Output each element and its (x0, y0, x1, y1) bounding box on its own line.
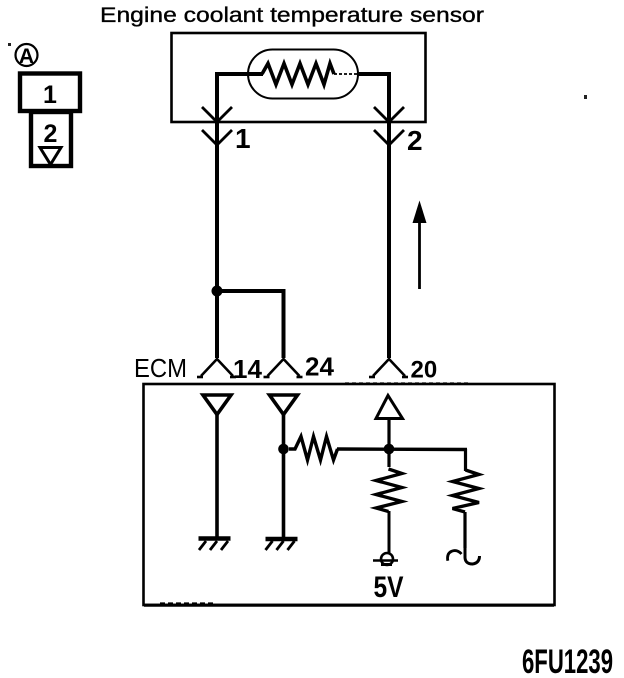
svg-text:ECM: ECM (134, 353, 187, 383)
svg-text:Engine coolant temperature sen: Engine coolant temperature sensor (100, 4, 484, 27)
svg-text:20: 20 (411, 357, 438, 384)
svg-text:2: 2 (44, 120, 58, 148)
svg-text:2: 2 (407, 125, 423, 156)
svg-text:14: 14 (233, 354, 262, 384)
svg-text:24: 24 (305, 352, 334, 382)
svg-text:1: 1 (235, 123, 251, 154)
svg-text:6FU1239: 6FU1239 (522, 642, 613, 678)
svg-text:5V: 5V (374, 571, 404, 604)
svg-text:1: 1 (43, 81, 57, 109)
svg-text:A: A (19, 45, 34, 68)
